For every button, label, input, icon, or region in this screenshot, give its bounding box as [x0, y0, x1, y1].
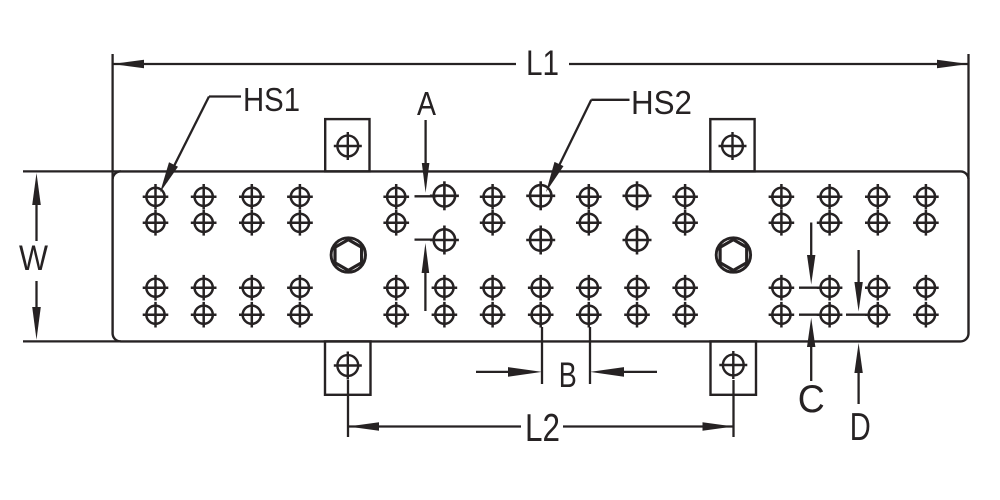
terminal hole M5 row3: [383, 275, 409, 301]
bottom mounting tab T3: [325, 341, 371, 394]
dimension A tail line up: [424, 272, 426, 311]
dimension L1 line left segment: [113, 63, 516, 65]
callout HS1 leader arrowhead: [160, 162, 178, 192]
terminal hole L1 row2: [143, 210, 169, 236]
dimension A leader line down: [424, 120, 426, 165]
dimension L1 extension line right: [967, 54, 969, 179]
terminal hole R2 row1: [817, 184, 843, 210]
terminal hole L1 row3: [143, 275, 169, 301]
svg-text:L1: L1: [526, 44, 559, 83]
terminal hole L4 row4: [287, 302, 313, 328]
screw hole M10 upper: [623, 181, 652, 210]
terminal hole R3 row2: [865, 210, 891, 236]
screw hole M8 lower: [526, 226, 555, 255]
dimension B extension line right: [589, 327, 591, 384]
dimension D tail line up: [857, 372, 859, 404]
terminal hole L4 row1: [287, 184, 313, 210]
terminal hole M5 row1: [383, 184, 409, 210]
svg-text:HS1: HS1: [243, 81, 300, 118]
terminal hole M9 row4: [576, 302, 602, 328]
terminal hole M7 row3: [480, 275, 506, 301]
terminal hole R4 row4: [913, 302, 939, 328]
terminal hole R4 row1: [913, 184, 939, 210]
terminal hole M11 row1: [672, 184, 698, 210]
terminal hole M11 row4: [672, 302, 698, 328]
dimension D arrowhead up: [854, 343, 862, 373]
hex nut HS1 head: [331, 238, 365, 272]
dimension D tick row4: [846, 314, 878, 316]
dimension L2 extension line left: [347, 380, 349, 437]
dimension B arrowhead right: [590, 367, 624, 377]
callout HS2 leader diagonal: [552, 100, 592, 181]
terminal hole R1 row1: [769, 184, 795, 210]
screw hole M10 lower: [623, 226, 652, 255]
dimension C arrowhead down: [807, 255, 815, 285]
svg-text:B: B: [559, 356, 577, 395]
dimension L2 extension line right: [732, 380, 734, 437]
callout HS1 leader diagonal: [166, 97, 209, 183]
terminal hole M7 row2: [480, 210, 506, 236]
dimension D leader line down: [857, 250, 859, 283]
terminal hole R4 row3: [913, 275, 939, 301]
terminal hole M10 row4: [624, 302, 650, 328]
dimension B extension line left: [541, 327, 543, 384]
screw hole M8 upper: [526, 181, 555, 210]
dimension L1 arrowhead left: [113, 60, 144, 69]
terminal hole M8 row4: [528, 302, 554, 328]
top mounting tab T2: [710, 119, 754, 171]
svg-text:C: C: [798, 378, 825, 421]
terminal hole L2 row4: [191, 302, 217, 328]
terminal hole M5 row2: [383, 210, 409, 236]
svg-text:A: A: [417, 85, 436, 122]
terminal hole R3 row4: [865, 302, 891, 328]
callout HS2 leader arrowhead: [546, 162, 564, 192]
bottom mounting tab T4 hole: [719, 351, 747, 379]
bottom mounting tab T4: [711, 341, 757, 394]
top mounting tab T1: [325, 119, 369, 171]
terminal hole M6 row4: [432, 302, 458, 328]
dimension W line upper segment: [35, 202, 37, 241]
terminal hole L2 row2: [191, 210, 217, 236]
svg-text:W: W: [19, 239, 48, 278]
terminal hole R2 row3: [817, 275, 843, 301]
terminal hole R1 row3: [769, 275, 795, 301]
terminal hole L2 row3: [191, 275, 217, 301]
dimension C tail line up: [810, 346, 812, 381]
dimension L2 line right segment: [563, 425, 734, 427]
dimension L2 arrowhead right: [703, 422, 734, 431]
terminal hole R2 row2: [817, 210, 843, 236]
callout HS1 leader horizontal: [209, 95, 241, 97]
terminal hole M7 row4: [480, 302, 506, 328]
body outline: [113, 171, 969, 341]
dimension L1 arrowhead right: [937, 60, 969, 69]
terminal hole L3 row3: [239, 275, 265, 301]
terminal hole L4 row2: [287, 210, 313, 236]
top mounting tab T2 hole: [719, 132, 747, 160]
dimension L1 extension line left: [111, 54, 113, 179]
screw hole M6 upper: [430, 181, 459, 210]
dimension B arrowhead left: [508, 367, 542, 377]
screw hole M6 lower: [430, 226, 459, 255]
terminal hole R1 row4: [769, 302, 795, 328]
hex nut HS2 head: [716, 238, 750, 272]
dimension D arrowhead down: [854, 282, 862, 312]
dimension A arrowhead down: [422, 163, 430, 193]
terminal hole L1 row4: [143, 302, 169, 328]
terminal hole R4 row2: [913, 210, 939, 236]
terminal hole M9 row1: [576, 184, 602, 210]
terminal hole L3 row2: [239, 210, 265, 236]
top mounting tab T1 hole: [334, 132, 362, 160]
dimension L1 line right segment: [569, 63, 969, 65]
terminal hole M11 row3: [672, 275, 698, 301]
terminal hole M7 row1: [480, 184, 506, 210]
svg-text:HS2: HS2: [631, 84, 692, 121]
terminal hole R3 row1: [865, 184, 891, 210]
terminal hole M5 row4: [383, 302, 409, 328]
terminal hole M10 row3: [624, 275, 650, 301]
dimension B arrow right tail: [622, 371, 657, 373]
dimension W extension line top: [23, 170, 121, 172]
dimension C leader line down: [810, 223, 812, 258]
svg-text:D: D: [850, 406, 871, 449]
terminal hole M11 row2: [672, 210, 698, 236]
dimension C tick row4: [799, 314, 841, 316]
dimension W extension line bottom: [23, 340, 121, 342]
dimension A tick lower: [415, 238, 435, 240]
terminal hole L1 row1: [143, 184, 169, 210]
dimension A tick upper: [415, 195, 437, 197]
dimension W arrowhead down: [32, 307, 41, 340]
terminal hole M6 row3: [432, 275, 458, 301]
dimension B arrow left tail: [476, 371, 510, 373]
terminal hole M8 row3: [528, 275, 554, 301]
dimension C arrowhead up: [807, 318, 815, 347]
terminal hole L3 row4: [239, 302, 265, 328]
dimension W line lower segment: [35, 281, 37, 311]
terminal hole L4 row3: [287, 275, 313, 301]
terminal hole M9 row3: [576, 275, 602, 301]
terminal hole R2 row4: [817, 302, 843, 328]
dimension L2 line left segment: [348, 425, 521, 427]
dimension W arrowhead up: [32, 173, 41, 205]
svg-text:L2: L2: [525, 407, 560, 450]
terminal hole L3 row1: [239, 184, 265, 210]
callout HS2 leader horizontal: [591, 99, 629, 101]
dimension L2 arrowhead left: [348, 422, 379, 431]
terminal hole M9 row2: [576, 210, 602, 236]
dimension C tick row3: [799, 287, 823, 289]
dimension A arrowhead up: [422, 243, 430, 273]
terminal hole R3 row3: [865, 275, 891, 301]
terminal hole R1 row2: [769, 210, 795, 236]
terminal hole L2 row1: [191, 184, 217, 210]
bottom mounting tab T3 hole: [334, 352, 362, 380]
